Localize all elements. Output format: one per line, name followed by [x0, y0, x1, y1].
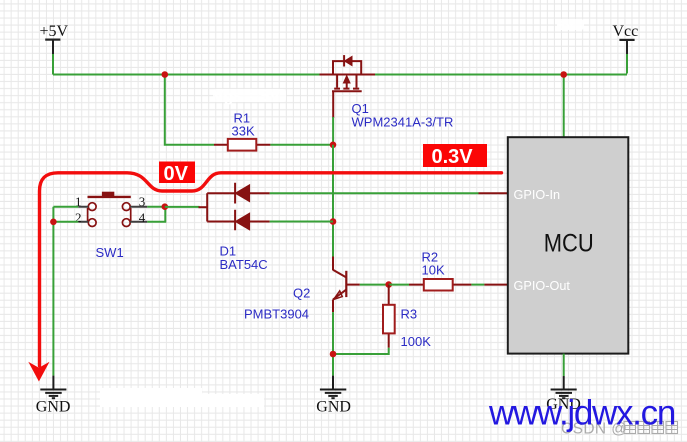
- resistor R3: [383, 285, 395, 348]
- whiteout smudge bottom left: [100, 388, 264, 407]
- wire gate node down to D1 junction: [332, 145, 334, 222]
- wire base node to R2: [389, 284, 409, 286]
- svg-text:BAT54C: BAT54C: [220, 257, 268, 272]
- resistor R1: [214, 139, 270, 151]
- transistor Q2: [333, 257, 360, 313]
- junction dot emitter/R3/GND: [330, 351, 337, 358]
- wire SW1 pin1 to left vertical: [53, 206, 78, 208]
- junction dot rail/R1 feed: [162, 71, 169, 78]
- wire SW1 pin4 jog up: [147, 207, 165, 222]
- wire SW1 to D1 common: [165, 206, 200, 208]
- svg-text:R3: R3: [401, 307, 418, 322]
- power flag Vcc: [613, 23, 639, 54]
- annotation 0.3V label box: [423, 144, 487, 168]
- wire down to Q2 collector: [332, 222, 334, 257]
- svg-text:MCU: MCU: [544, 230, 594, 258]
- svg-text:10K: 10K: [422, 263, 445, 278]
- wire D1 bottom anode to vertical: [270, 221, 333, 223]
- junction dot SW1 right: [162, 203, 169, 210]
- whiteout smudge top center: [213, 88, 286, 105]
- svg-text:www.jdwx.cn: www.jdwx.cn: [488, 394, 675, 433]
- ground MCU: [551, 376, 577, 398]
- svg-text:0.3V: 0.3V: [432, 146, 474, 168]
- wire top rail: [53, 74, 627, 76]
- svg-text:PMBT3904: PMBT3904: [244, 307, 309, 322]
- svg-text:Vgs = 5V: Vgs = 5V: [213, 88, 280, 105]
- wire +5V stem: [52, 54, 54, 75]
- junction dot base/R3/R2: [385, 281, 392, 288]
- svg-text:33K: 33K: [232, 124, 255, 139]
- wire GPIO-In net: [270, 192, 479, 194]
- svg-text:100K: 100K: [401, 334, 432, 349]
- pin stub GPIO-Out: [484, 284, 507, 286]
- annotation 0V/0.3V red trace with arrow: [28, 173, 501, 382]
- resistor R2: [409, 279, 471, 291]
- ground middle: [320, 376, 346, 399]
- ground left: [40, 376, 66, 399]
- junction dot gate/R1: [330, 142, 337, 149]
- svg-text:GND: GND: [316, 399, 351, 416]
- annotation 0V label box: [159, 162, 195, 186]
- wire R2 to GPIO-Out: [471, 284, 484, 286]
- wire R3 bottom to emitter node: [333, 348, 389, 354]
- switch SW1: [78, 192, 147, 227]
- wire MCU GND: [563, 354, 565, 376]
- svg-text:SW1: SW1: [96, 245, 124, 260]
- svg-text:Vcc: Vcc: [613, 23, 639, 40]
- junction dot rail/MCU Vcc: [560, 71, 567, 78]
- svg-text:3: 3: [139, 194, 146, 209]
- svg-text:GPIO-Out: GPIO-Out: [514, 279, 571, 293]
- wire R1 right to gate node: [270, 144, 333, 146]
- svg-text:+5V: +5V: [40, 23, 69, 40]
- wire MCU Vcc: [563, 75, 565, 138]
- wire Q1 gate down: [332, 117, 334, 145]
- wire SW1 pin3 to junction: [147, 206, 165, 208]
- wire SW1 left vertical to ground: [52, 207, 54, 376]
- junction dot D1 bottom anode: [330, 218, 337, 225]
- svg-text:4: 4: [139, 210, 146, 225]
- wire Vcc stem: [626, 54, 628, 74]
- power flag +5V: [40, 23, 69, 54]
- wire Q2 emitter down: [332, 312, 334, 376]
- wire SW1 pin2 to left vertical: [53, 221, 78, 223]
- whiteout smudge top right: [557, 18, 584, 33]
- diode D1: [199, 183, 270, 230]
- svg-text:WPM2341A-3/TR: WPM2341A-3/TR: [352, 115, 454, 130]
- svg-text:5V: 5V: [558, 18, 574, 33]
- transistor Q1: [320, 55, 376, 118]
- svg-text:GPIO-In: GPIO-In: [514, 188, 561, 202]
- wire R1 feed (rail to R1 left): [165, 75, 214, 145]
- junction dot SW1 left: [50, 219, 57, 226]
- pin stub GPIO-In: [479, 192, 508, 194]
- MCU U1: [508, 137, 629, 353]
- wire Q2 base to R3 node: [360, 284, 386, 286]
- svg-text:Q2: Q2: [293, 286, 310, 301]
- svg-text:0V: 0V: [164, 163, 189, 185]
- svg-text:GND: GND: [36, 399, 71, 416]
